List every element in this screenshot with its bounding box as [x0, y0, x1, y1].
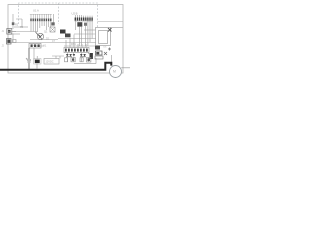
svg-text:U2 B: U2 B [72, 11, 78, 15]
svg-text:12VDC: 12VDC [46, 61, 54, 64]
svg-text:U1 A: U1 A [33, 8, 39, 12]
svg-text:M: M [113, 70, 116, 74]
